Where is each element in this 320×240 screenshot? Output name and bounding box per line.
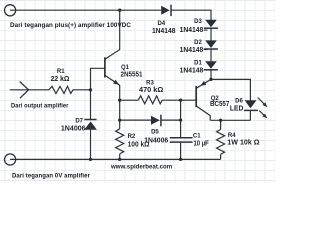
LED D6 cathode bar bbox=[244, 109, 258, 111]
leader dash D2 bbox=[204, 49, 208, 51]
diode D7 body bbox=[84, 121, 97, 129]
wire top rail drop to diode chain bbox=[210, 10, 212, 21]
diode D2 body bbox=[205, 40, 217, 48]
svg-text:100 kΩ: 100 kΩ bbox=[128, 140, 150, 149]
wire Q2 collector to LED cathode bbox=[210, 119, 250, 121]
wire top rail left of D4 bbox=[10, 9, 161, 11]
diode D7 cathode bar bbox=[84, 119, 96, 121]
wire diode chain to LED branch bbox=[210, 70, 212, 80]
junction node bottom rail / C1 bbox=[179, 158, 182, 161]
wire base node riser to Q1 base bbox=[91, 68, 105, 90]
LED light arrow 2 shaft bbox=[259, 111, 264, 116]
wire node to D7 bbox=[90, 90, 92, 120]
svg-text:1N4148: 1N4148 bbox=[180, 45, 204, 54]
junction node collector wire / R4 bbox=[219, 119, 222, 122]
wire Q1 emitter vertical lower below R2 bbox=[119, 154, 121, 160]
transistor Q1 emitter arrow bbox=[113, 80, 119, 85]
leader dash D1 bbox=[204, 69, 208, 71]
diode D1 body bbox=[205, 61, 217, 69]
svg-text:1N4148: 1N4148 bbox=[180, 66, 204, 75]
transistor Q2 collector bbox=[196, 106, 210, 120]
transistor Q2 emitter diagonal bbox=[196, 79, 211, 88]
capacitor C1 top plate bbox=[170, 137, 193, 139]
junction node bottom rail / D7 bbox=[89, 158, 92, 161]
resistor R1 bbox=[49, 86, 73, 93]
wire D2 to D1 bbox=[210, 49, 212, 61]
junction node emitter line / D5 bbox=[118, 118, 121, 121]
wire top rail right of D4 bbox=[171, 9, 211, 11]
svg-text:BC557: BC557 bbox=[210, 99, 229, 108]
transistor Q1 emitter diagonal bbox=[105, 75, 120, 85]
svg-text:1W 10k Ω: 1W 10k Ω bbox=[227, 138, 259, 147]
junction node D5 / C1 bbox=[179, 118, 182, 121]
svg-text:Dari tegangan plus(+) amplifie: Dari tegangan plus(+) amplifier 100VDC bbox=[10, 22, 131, 29]
wire C1 top bbox=[180, 100, 182, 137]
svg-text:Dari output amplifier: Dari output amplifier bbox=[11, 102, 69, 109]
wire LED cathode drop bbox=[249, 110, 251, 120]
resistor R2 bbox=[116, 129, 124, 154]
svg-text:1N4006: 1N4006 bbox=[61, 124, 86, 133]
wire D5 to C1 node bbox=[161, 119, 181, 121]
svg-text:1N4148: 1N4148 bbox=[152, 26, 176, 35]
diode D3 cathode bar bbox=[204, 27, 218, 29]
terminal plus input bbox=[5, 5, 16, 16]
wire chain node to LED top bbox=[211, 79, 250, 100]
wire Q1 emitter vertical upper bbox=[119, 85, 121, 129]
diode D5 body bbox=[151, 116, 160, 125]
diode D5 cathode bar bbox=[160, 115, 162, 127]
wire R3 left bbox=[120, 99, 139, 101]
resistor R3 bbox=[138, 96, 162, 104]
wire input lead bbox=[10, 89, 49, 91]
resistor R4 top lead bbox=[220, 120, 222, 129]
wire D7 to bottom rail bbox=[90, 130, 92, 160]
junction node top rail / Q1 collector bbox=[118, 9, 121, 12]
diode D4 body bbox=[161, 6, 169, 15]
junction node R1 / D7 / Q1 base bbox=[89, 88, 92, 91]
wire Q1 collector riser bbox=[105, 10, 120, 59]
wire D5 left bbox=[120, 119, 151, 121]
svg-text:1N4148: 1N4148 bbox=[180, 25, 204, 34]
capacitor C1 bottom plate bbox=[170, 141, 193, 143]
svg-text:Dari tegangan 0V amplifier: Dari tegangan 0V amplifier bbox=[12, 172, 90, 179]
junction node R3 / C1 / Q2 base bbox=[179, 99, 182, 102]
transistor Q2 base bar bbox=[195, 86, 197, 107]
svg-text:LED: LED bbox=[230, 104, 243, 113]
wire D3 to D2 bbox=[210, 28, 212, 40]
svg-text:www.spiderbeat.com: www.spiderbeat.com bbox=[110, 163, 172, 170]
leader dash D3 bbox=[204, 29, 208, 31]
wire C1 bottom bbox=[180, 143, 182, 160]
resistor R4 bbox=[217, 129, 225, 154]
input arrow head bbox=[20, 82, 29, 99]
svg-text:470 kΩ: 470 kΩ bbox=[139, 85, 163, 94]
LED D6 body bbox=[245, 100, 257, 108]
diode D2 cathode bar bbox=[204, 48, 218, 50]
diode D3 body bbox=[205, 20, 217, 28]
junction node diode chain / Q2 emitter / LED bbox=[209, 78, 212, 81]
svg-text:22 kΩ: 22 kΩ bbox=[51, 74, 70, 83]
junction node bottom rail / R2 bbox=[118, 158, 121, 161]
transistor Q1 base bar bbox=[104, 57, 106, 77]
svg-text:2N5551: 2N5551 bbox=[121, 69, 143, 78]
wire R1 to base node bbox=[73, 89, 91, 91]
svg-text:D3: D3 bbox=[194, 19, 202, 25]
LED light arrow 2 head bbox=[262, 114, 267, 119]
LED light arrow 1 head bbox=[263, 102, 268, 107]
LED light arrow 1 shaft bbox=[258, 98, 265, 105]
diode D4 cathode bar bbox=[170, 5, 172, 16]
terminal 0V bbox=[5, 154, 16, 165]
transistor Q2 emitter arrow bbox=[200, 81, 206, 86]
resistor R4 bottom lead bbox=[220, 154, 222, 159]
svg-text:10 µF: 10 µF bbox=[194, 139, 210, 148]
diode D1 cathode bar bbox=[204, 69, 218, 71]
wire R3 to Q2 base bbox=[162, 99, 196, 101]
junction node Q1 emitter / R3 bbox=[118, 99, 121, 102]
wire bottom rail bbox=[10, 158, 221, 160]
